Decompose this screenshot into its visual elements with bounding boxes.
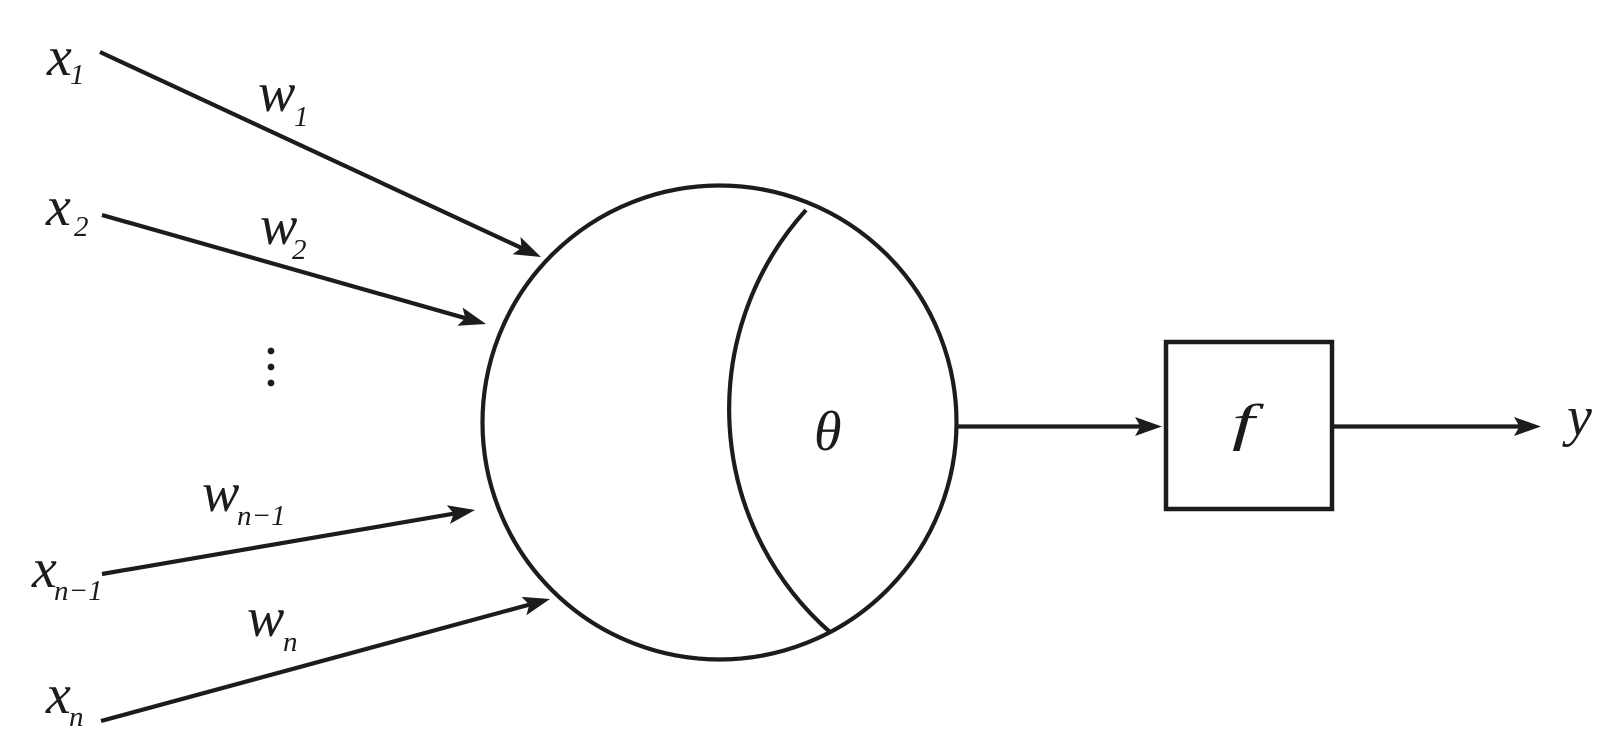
svg-text:w: w xyxy=(202,462,239,524)
svg-text:1: 1 xyxy=(70,59,85,91)
svg-text:1: 1 xyxy=(294,101,309,133)
svg-text:n−1: n−1 xyxy=(237,500,286,532)
svg-text:2: 2 xyxy=(292,234,307,266)
svg-text:x: x xyxy=(45,176,71,238)
svg-text:w: w xyxy=(247,587,284,649)
svg-text:n: n xyxy=(283,626,298,658)
svg-text:x: x xyxy=(46,26,72,88)
svg-text:θ: θ xyxy=(814,401,842,463)
svg-text:f: f xyxy=(1232,394,1264,452)
svg-text:n−1: n−1 xyxy=(54,575,103,607)
svg-text:w: w xyxy=(258,62,295,124)
svg-text:2: 2 xyxy=(74,211,89,243)
svg-text:n: n xyxy=(69,701,84,733)
svg-text:y: y xyxy=(1562,386,1592,448)
svg-text:x: x xyxy=(45,664,71,726)
